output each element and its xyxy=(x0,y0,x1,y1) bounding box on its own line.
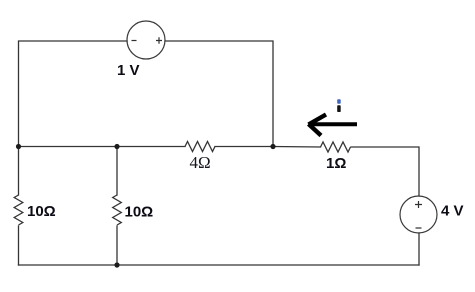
resistor R 4-ohm (horizontal zigzag) xyxy=(185,142,215,152)
node junction dot (middle vertical bottom) xyxy=(114,262,119,267)
voltage source V2 4V (circle) xyxy=(400,196,437,233)
wire middle-left segment (node A to 4-ohm resistor) xyxy=(19,146,186,148)
node junction dot (middle vertical top) xyxy=(114,144,119,149)
wire left vertical below R1 xyxy=(18,226,20,265)
resistor R 1-ohm (horizontal zigzag) xyxy=(321,142,351,152)
wire bottom horizontal xyxy=(19,264,420,266)
node B junction dot (top-right branch meets middle wire) xyxy=(270,144,275,149)
svg-text:1 V: 1 V xyxy=(117,62,140,79)
wire 4V source bottom to bottom-right corner xyxy=(418,233,420,265)
wire node B to 1-ohm resistor xyxy=(273,146,321,149)
svg-text:4Ω: 4Ω xyxy=(190,153,211,172)
wire middle vertical below R2 xyxy=(116,226,118,265)
svg-text:4 V: 4 V xyxy=(441,203,464,220)
V2 minus sign (bottom) xyxy=(416,227,422,229)
wire 1V source right to top-right corner and down to node B xyxy=(165,41,273,147)
current arrow i (thick, pointing left) xyxy=(309,115,358,136)
wire left vertical above R1 xyxy=(18,147,20,196)
svg-text:1Ω: 1Ω xyxy=(326,155,346,172)
svg-text:10Ω: 10Ω xyxy=(125,204,154,221)
wire 4-ohm to node B xyxy=(215,146,273,148)
V1 minus sign (left) xyxy=(132,40,137,42)
node A junction dot (left, middle wire) xyxy=(16,144,21,149)
svg-text:10Ω: 10Ω xyxy=(27,203,56,220)
V2 plus sign (top) xyxy=(415,201,422,208)
wire top-left horizontal (node top-left to 1V source left) xyxy=(19,41,128,147)
resistor R 10-ohm middle (vertical zigzag) xyxy=(113,195,122,225)
wire middle vertical above R2 xyxy=(116,147,118,196)
V1 plus sign (right) xyxy=(156,37,162,44)
wire 1-ohm right to corner and down to 4V source top xyxy=(351,147,419,196)
current label i (blue tittle) xyxy=(337,99,341,103)
current label i (stem) xyxy=(337,105,341,112)
voltage source V1 1V (circle) xyxy=(127,21,165,59)
resistor R 10-ohm left (vertical zigzag) xyxy=(14,195,23,225)
